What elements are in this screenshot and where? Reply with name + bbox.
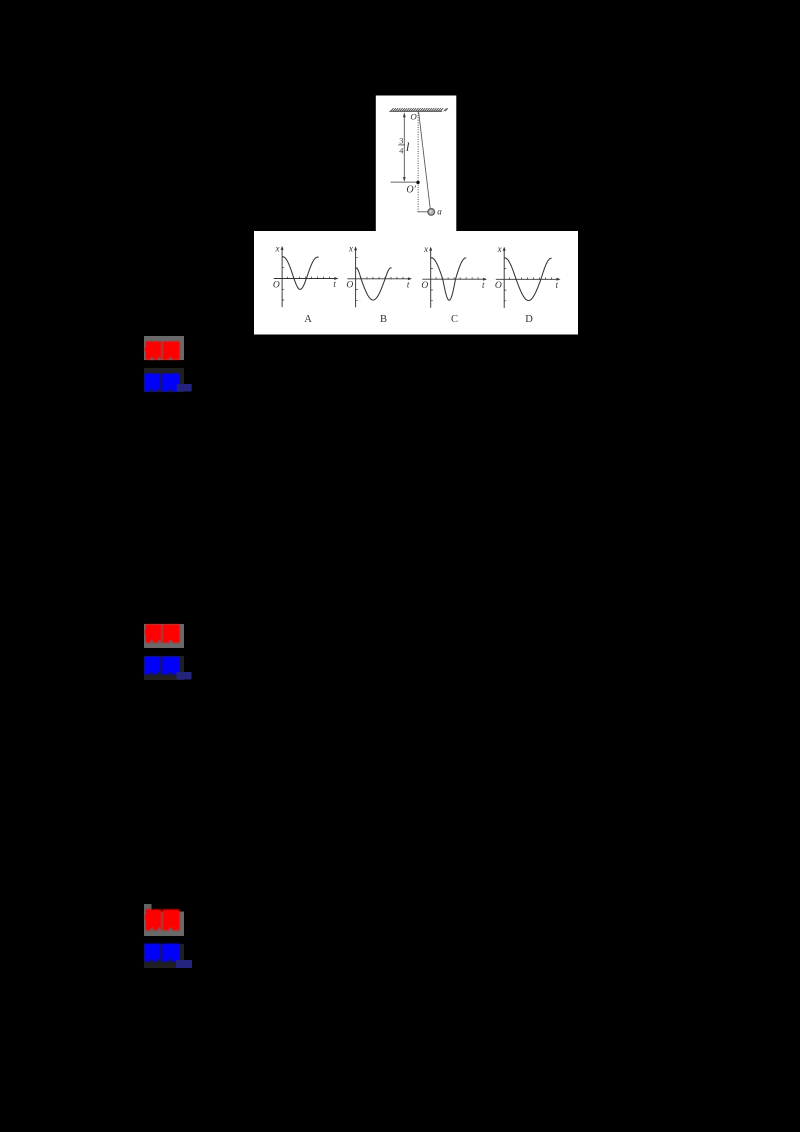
- svg-text:x: x: [275, 243, 280, 253]
- svg-text:C: C: [451, 314, 458, 325]
- svg-text:O: O: [495, 281, 502, 291]
- svg-text:O: O: [346, 281, 353, 291]
- svg-text:O: O: [421, 281, 428, 291]
- svg-text:x: x: [497, 244, 502, 254]
- svg-text:O: O: [410, 112, 417, 122]
- svg-text:A: A: [304, 314, 312, 325]
- svg-text:3: 3: [399, 137, 403, 146]
- svg-text:O′: O′: [406, 185, 416, 196]
- svg-text:l: l: [406, 139, 410, 154]
- svg-text:O: O: [273, 280, 280, 290]
- svg-text:x: x: [423, 244, 428, 254]
- svg-text:x: x: [348, 244, 353, 254]
- svg-text:a: a: [437, 207, 442, 217]
- svg-text:B: B: [380, 314, 387, 325]
- svg-text:D: D: [525, 314, 533, 325]
